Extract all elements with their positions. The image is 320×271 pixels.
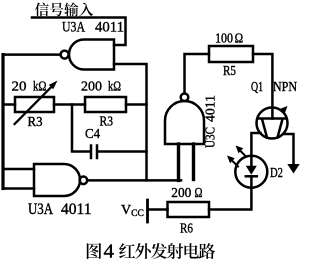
wire LED D2 bottom to R6 — [209, 176, 251, 209]
wire left rail — [1, 55, 4, 189]
wire left rail to R3 potentiometer — [3, 103, 15, 106]
svg-text:C4: C4 — [85, 127, 100, 142]
svg-text:kΩ: kΩ — [108, 80, 121, 95]
wire R5 to Q1 base — [253, 54, 272, 119]
wire Q1 emitter down — [284, 134, 294, 164]
LED D2 emission arrow head 1 — [236, 146, 244, 154]
op-amp U3A gate bubble — [61, 51, 69, 59]
svg-text:U3A: U3A — [62, 20, 85, 36]
wire 200k right to feedback rail — [126, 103, 147, 106]
wire U3C input stub right — [192, 144, 195, 180]
wire C4 right to feedback rail — [98, 150, 146, 153]
transistor Q1 base bar — [259, 117, 286, 120]
wire U3C input stub left — [177, 144, 180, 180]
LED D2 circle — [235, 156, 267, 188]
capacitor C4 plates — [91, 146, 97, 159]
wire U3C output up to R5 — [185, 54, 210, 94]
svg-text:4011: 4011 — [95, 20, 124, 36]
transistor Q1 circle — [257, 108, 288, 139]
text 信号输入 char 号 — [50, 3, 64, 17]
op-amp U3C gate body (NAND pointing up) — [165, 101, 204, 144]
svg-text:4011: 4011 — [61, 201, 92, 218]
svg-text:R5: R5 — [223, 64, 236, 79]
svg-text:NPN: NPN — [273, 79, 297, 94]
wire U3A input2 stub and feedback rail — [114, 64, 147, 180]
transistor Q1 emitter arrow head (NPN) — [280, 106, 288, 114]
text 红外发射电路 char 发 — [151, 243, 167, 259]
text 信号输入 char 输 — [64, 2, 78, 16]
LED D2 cathode bar — [246, 175, 257, 178]
node: signal input wire (underline of 信号输入) — [32, 18, 126, 46]
text 信号输入 char 信 — [35, 2, 49, 16]
svg-text:Ω: Ω — [195, 186, 203, 201]
wire U3B input 1 — [3, 168, 34, 171]
text 信号输入 char 入 — [79, 3, 93, 17]
LED D2 emission arrow shafts — [231, 150, 246, 167]
text 红外发射电路 char 射 — [167, 243, 183, 259]
text 红外发射电路 char 外 — [135, 243, 151, 259]
op-amp U3C gate bubble — [181, 94, 189, 102]
wire Q1 emitter down arrow head — [287, 164, 299, 174]
R3 potentiometer arrow head — [49, 81, 58, 90]
wire Q1 collector to LED D2 — [251, 133, 260, 167]
wire Vcc to R6 — [149, 208, 168, 211]
wire R3 pot to 200k R3 junction — [54, 103, 85, 106]
svg-text:4: 4 — [104, 241, 115, 263]
transistor Q1 left leg — [262, 119, 267, 138]
svg-text:R6: R6 — [180, 222, 193, 237]
svg-text:D2: D2 — [270, 166, 283, 181]
wire junction down to C4 — [72, 105, 90, 152]
wire U3B input 2 — [3, 187, 34, 190]
svg-text:20: 20 — [12, 80, 27, 95]
svg-text:U3A: U3A — [28, 201, 53, 218]
text 图4 char 图 — [87, 243, 102, 259]
svg-text:4011: 4011 — [203, 95, 218, 122]
svg-text:R3: R3 — [100, 115, 114, 130]
text 红外发射电路 char 红 — [119, 243, 135, 258]
resistor R3 potentiometer body — [15, 97, 54, 112]
svg-text:R3: R3 — [28, 115, 43, 130]
text 红外发射电路 char 电 — [184, 243, 199, 258]
resistor R5 body — [209, 46, 253, 62]
svg-text:Q1: Q1 — [251, 80, 263, 95]
diode D2 triangle — [246, 166, 257, 175]
svg-text:200: 200 — [171, 186, 191, 201]
svg-text:100: 100 — [215, 32, 233, 47]
svg-text:Ω: Ω — [235, 32, 244, 47]
text 红外发射电路 char 路 — [199, 243, 215, 259]
svg-text:200: 200 — [81, 80, 102, 95]
svg-text:U3C: U3C — [203, 127, 218, 148]
transistor Q1 right leg — [278, 119, 283, 138]
op-amp U3B gate body (NAND pointing right) — [34, 164, 80, 196]
svg-text:kΩ: kΩ — [33, 80, 47, 95]
wire U3B output to U3C inputs — [87, 179, 181, 182]
resistor R6 body — [168, 202, 210, 217]
Vcc terminal bar — [146, 200, 149, 222]
op-amp U3B gate bubble — [80, 177, 88, 185]
LED D2 emission arrow head 2 — [227, 156, 235, 164]
R3 potentiometer arrow shaft — [15, 87, 52, 124]
wire U3A output to left rail — [3, 53, 61, 56]
op-amp U3A gate body (NAND mirrored, pointing left) — [69, 40, 114, 70]
resistor R3 200k body — [85, 97, 126, 112]
